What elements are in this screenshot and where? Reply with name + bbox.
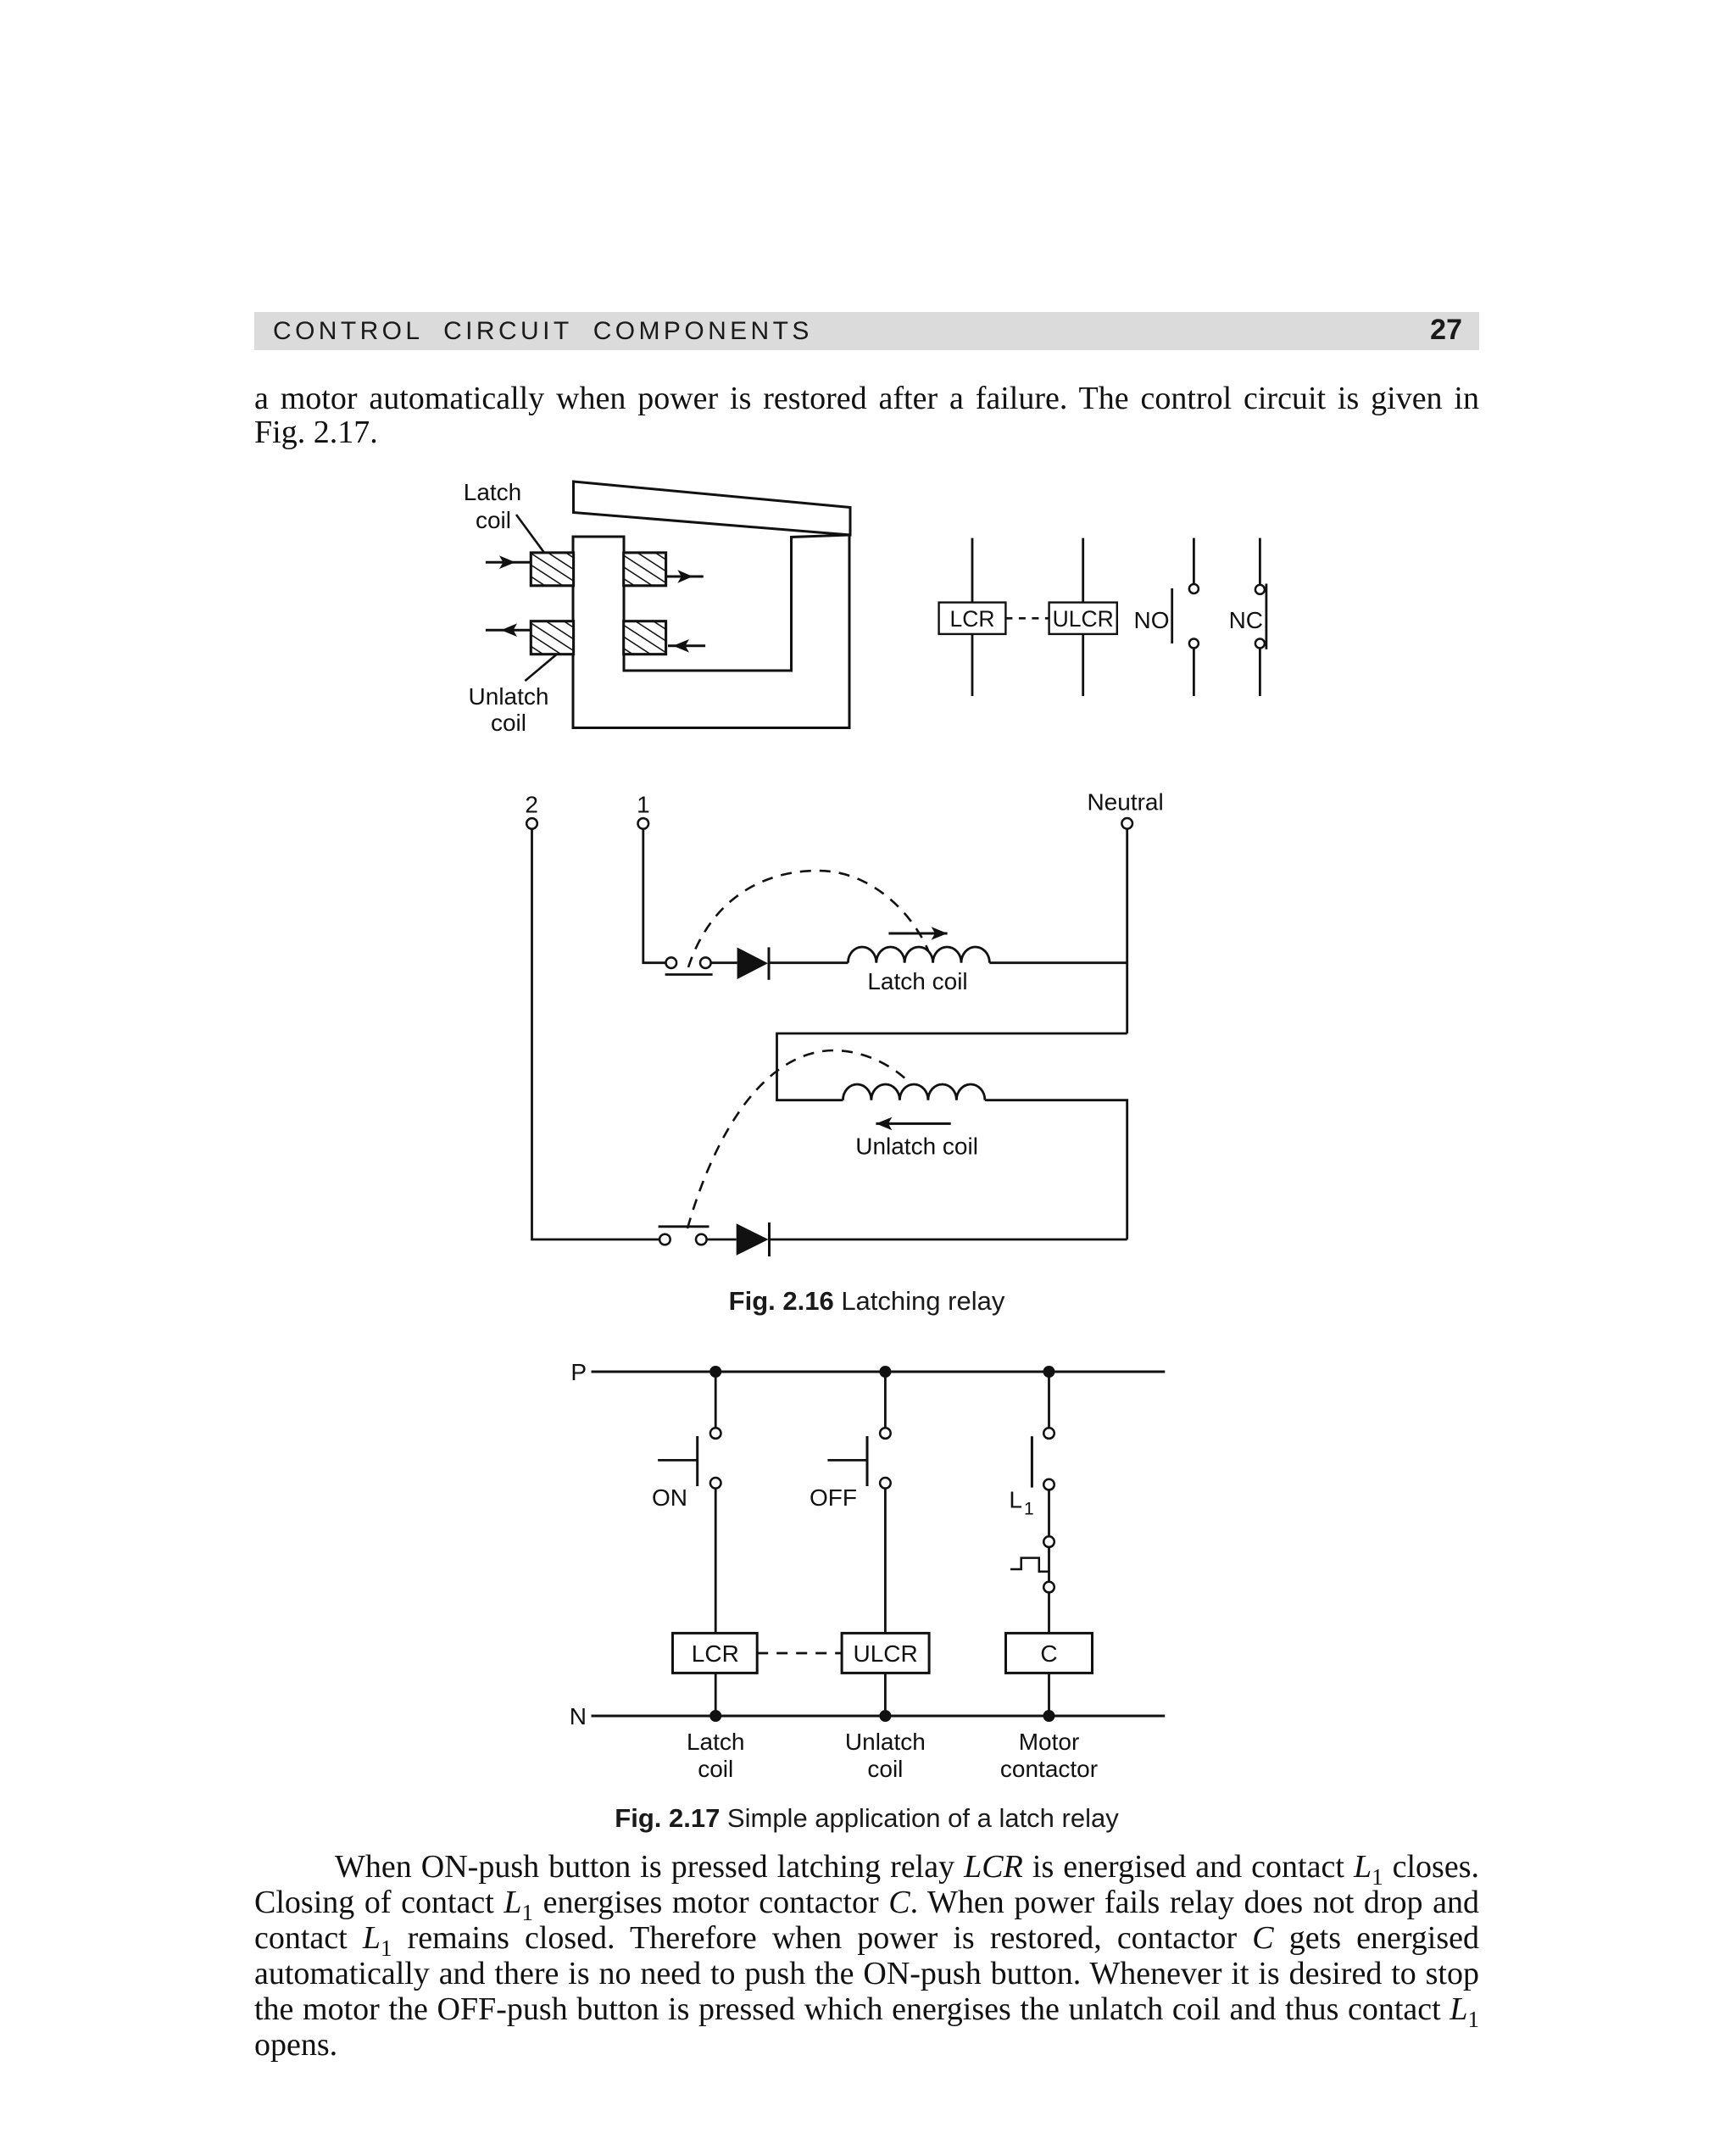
caption fig 2.16 <box>254 1286 1479 1317</box>
ON label <box>652 1484 687 1511</box>
caption fig 2.17 <box>254 1803 1479 1834</box>
svg-text:ON: ON <box>652 1484 687 1511</box>
OFF pushbutton branch <box>884 1372 887 1428</box>
wire diode to latch coil <box>769 961 848 964</box>
wire ON to LCR <box>715 1489 717 1634</box>
wire between latch circles <box>1048 1547 1050 1582</box>
P rail <box>592 1371 1166 1373</box>
ULCR coil box <box>1049 603 1117 634</box>
svg-text:Latch: Latch <box>464 479 522 505</box>
svg-text:coil: coil <box>867 1756 903 1782</box>
svg-text:P: P <box>570 1359 587 1385</box>
diode D2 <box>737 1223 769 1256</box>
dashed mechanical arc unlatch <box>687 1050 910 1228</box>
label Latch coil <box>867 968 967 994</box>
Neutral terminal <box>1087 788 1163 815</box>
ON actuator tail <box>658 1459 698 1462</box>
wire C to N <box>1048 1673 1050 1716</box>
jog wire neutral to unlatch <box>777 1033 1127 1100</box>
svg-text:1: 1 <box>637 792 650 818</box>
current arrow under unlatch coil <box>876 1117 950 1131</box>
wire to C box <box>1048 1592 1050 1633</box>
svg-text:Motor: Motor <box>1019 1729 1080 1755</box>
wire diode to right vertical <box>770 1239 1127 1241</box>
paragraph 1 <box>254 380 1479 417</box>
junction N-C <box>1043 1710 1055 1722</box>
wire from terminal 1 down <box>643 829 666 963</box>
unlatch coil winding right half <box>624 621 666 654</box>
armature plate <box>574 482 851 535</box>
NO contact <box>1171 588 1173 643</box>
terminal 1 <box>637 792 650 818</box>
leader line unlatch coil <box>525 654 556 681</box>
N rail <box>592 1715 1166 1718</box>
svg-text:N: N <box>570 1703 587 1729</box>
unlatch coil winding left half <box>531 621 573 654</box>
wire terminal 2 down and bottom left <box>532 829 660 1239</box>
label Unlatch coil <box>469 683 549 736</box>
label Latch coil <box>464 479 522 533</box>
unlatch coil inductor <box>843 1084 985 1100</box>
latch mechanism circle 2 <box>1043 1582 1054 1593</box>
diode D1 <box>737 948 768 980</box>
svg-text:Latch: Latch <box>687 1729 745 1755</box>
mechanical link LCR-ULCR dashed <box>1005 617 1049 620</box>
label Unlatch coil <box>845 1729 926 1782</box>
NC label <box>1229 607 1263 633</box>
svg-text:LCR: LCR <box>949 606 994 632</box>
svg-text:Neutral: Neutral <box>1087 788 1163 815</box>
wire to diode D1 <box>711 961 737 964</box>
L1 contact bar <box>1031 1436 1033 1487</box>
header bar <box>254 312 1479 350</box>
latch coil winding right half <box>624 553 666 586</box>
junction N-ULCR <box>879 1710 891 1722</box>
svg-text:Unlatch: Unlatch <box>845 1729 926 1755</box>
latch coil winding left half <box>531 553 573 586</box>
label Latch coil <box>687 1729 745 1782</box>
svg-text:ULCR: ULCR <box>853 1640 917 1667</box>
magnetic core <box>573 535 849 728</box>
OFF actuator tail <box>827 1459 867 1462</box>
svg-text:Unlatch: Unlatch <box>469 683 549 710</box>
wire unlatch coil right <box>985 1100 1127 1239</box>
wire OFF to ULCR <box>884 1489 887 1634</box>
ON contact bar <box>696 1436 698 1486</box>
wire L1 to latch contact <box>1048 1490 1050 1536</box>
label Unlatch coil <box>855 1133 978 1160</box>
svg-text:OFF: OFF <box>810 1484 857 1511</box>
LCR relay coil box <box>673 1633 758 1673</box>
leader line latch coil <box>516 515 544 553</box>
unlatch coil current arrow out <box>486 623 531 637</box>
svg-text:coil: coil <box>698 1756 733 1782</box>
svg-text:L: L <box>1009 1486 1022 1512</box>
paragraph 2 <box>254 1848 1479 1885</box>
current arrow over latch coil <box>888 927 947 940</box>
svg-text:contactor: contactor <box>1000 1756 1098 1782</box>
svg-text:Latch coil: Latch coil <box>867 968 967 994</box>
junction P-OFF <box>879 1366 891 1378</box>
OFF contact bar <box>866 1436 869 1486</box>
pushbutton S2 (unlatch, NO) <box>659 1234 670 1245</box>
latch coil current arrow in <box>486 555 531 569</box>
mechanical link LCR-ULCR dashed <box>757 1652 842 1655</box>
svg-text:NC: NC <box>1229 607 1263 633</box>
svg-text:C: C <box>1040 1640 1057 1667</box>
C contactor coil box <box>1006 1633 1093 1673</box>
latch coil current arrow out <box>666 570 704 583</box>
wire to diode D2 <box>707 1239 737 1241</box>
L1 label <box>1009 1486 1033 1518</box>
svg-text:LCR: LCR <box>692 1640 739 1667</box>
LCR coil box <box>939 603 1006 634</box>
L1 contact branch <box>1048 1372 1050 1428</box>
pulse (latch) symbol <box>1010 1558 1049 1572</box>
junction P-ON <box>709 1366 721 1378</box>
svg-text:2: 2 <box>525 792 538 818</box>
dashed mechanical arc latch <box>688 871 928 967</box>
pushbutton S1 (latch, NO) <box>666 957 677 968</box>
unlatch coil current arrow in <box>668 639 705 653</box>
terminal 2 <box>525 792 538 818</box>
latch mechanism circle <box>1043 1536 1054 1547</box>
NC contact <box>1266 584 1268 649</box>
wire LCR to N <box>715 1673 717 1716</box>
wire latch coil to neutral line <box>989 961 1127 964</box>
NO label <box>1134 607 1170 633</box>
ULCR wires <box>1082 538 1084 603</box>
svg-text:Unlatch coil: Unlatch coil <box>855 1133 978 1160</box>
ON pushbutton branch <box>715 1372 717 1428</box>
ULCR relay coil box <box>842 1633 929 1673</box>
svg-text:coil: coil <box>476 507 511 533</box>
svg-text:1: 1 <box>1024 1499 1034 1518</box>
label Motor contactor <box>1000 1729 1098 1782</box>
svg-text:coil: coil <box>491 710 526 736</box>
svg-text:NO: NO <box>1134 607 1170 633</box>
wire ULCR to N <box>884 1673 887 1716</box>
neutral vertical wire <box>1126 829 1128 1033</box>
svg-text:ULCR: ULCR <box>1053 606 1114 632</box>
OFF label <box>810 1484 857 1511</box>
junction P-L1 <box>1043 1366 1055 1378</box>
junction N-LCR <box>709 1710 721 1722</box>
latch coil inductor <box>848 947 989 963</box>
LCR wires <box>971 538 974 603</box>
